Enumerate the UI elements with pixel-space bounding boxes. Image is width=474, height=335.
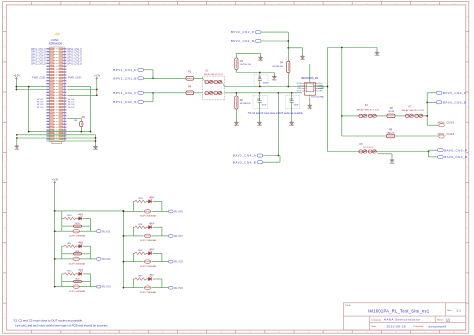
junction [54, 258, 56, 260]
svg-text:RLY07: RLY07 [174, 234, 183, 238]
wire [146, 252, 149, 254]
wire [62, 218, 65, 220]
junction [95, 137, 97, 139]
wire [153, 226, 162, 228]
svg-text:LED4: LED4 [149, 197, 155, 199]
wire [123, 287, 133, 289]
wire [46, 140, 96, 142]
wire [83, 218, 91, 220]
wire [96, 81, 98, 96]
svg-text:Company:: Company: [371, 319, 381, 321]
junction [123, 261, 125, 263]
wire [277, 93, 279, 156]
svg-text:V2: V2 [305, 88, 307, 90]
wire [263, 161, 280, 163]
ground [15, 145, 20, 148]
wire [426, 93, 428, 125]
wire [55, 230, 62, 232]
wire [395, 135, 439, 137]
wire [236, 72, 274, 74]
svg-text:2022-09-26: 2022-09-26 [387, 324, 406, 328]
title block [343, 303, 465, 330]
junction [90, 131, 92, 133]
ground [300, 55, 305, 58]
svg-text:+3.3V: +3.3V [94, 75, 101, 78]
connector CON4 [46, 33, 66, 144]
svg-text:TITLE:: TITLE: [345, 305, 352, 307]
wire [133, 226, 135, 228]
global label BPV0_CN0_B [436, 101, 442, 104]
wire [132, 201, 134, 211]
wire [80, 230, 91, 232]
svg-text:16: 16 [453, 332, 455, 334]
wire [376, 48, 378, 52]
svg-text:1/1: 1/1 [446, 318, 450, 322]
wire [259, 93, 261, 101]
wire [62, 225, 74, 227]
wire [123, 235, 133, 237]
svg-text:RLY02: RLY02 [102, 257, 111, 261]
junction [428, 151, 430, 153]
wire [16, 138, 18, 145]
svg-text:LED5: LED5 [149, 223, 155, 225]
wire [309, 64, 311, 83]
wire [91, 258, 97, 260]
svg-text:15: 15 [424, 3, 426, 5]
wire [318, 85, 323, 87]
svg-text:7: 7 [192, 3, 193, 5]
junction [96, 89, 98, 91]
global label BPV1_CN2_B [138, 100, 144, 103]
global label BAV2_CN4_B [257, 161, 263, 164]
junction [123, 210, 125, 212]
wire [235, 70, 237, 73]
op-amp U1 IM1601PA_RL [296, 76, 324, 98]
global label RLY07 [169, 235, 174, 238]
wire [144, 77, 187, 79]
ground [234, 121, 239, 124]
wire [377, 151, 429, 153]
wire [123, 261, 133, 263]
svg-text:2.1: 2.1 [457, 309, 462, 313]
wire [80, 127, 82, 132]
global label BPV1_CN1_P [138, 68, 144, 71]
svg-text:P2: P2 [313, 88, 315, 90]
wire [16, 89, 46, 91]
svg-text:BAV0_CN0_P: BAV0_CN0_P [444, 148, 467, 152]
svg-text:12: 12 [337, 3, 339, 5]
wire [328, 47, 378, 49]
wire [263, 155, 280, 157]
wire [83, 245, 91, 247]
wire [75, 218, 78, 220]
wire [55, 210, 124, 212]
svg-text:4K75R-1W: 4K75R-1W [272, 66, 284, 68]
svg-text:BPV1_CN2_B: BPV1_CN2_B [113, 100, 137, 104]
svg-text:100nF: 100nF [263, 83, 270, 85]
global label BAV0_CN0_P [438, 149, 444, 152]
wire [122, 211, 124, 288]
svg-text:F: F [467, 167, 468, 169]
wire [133, 235, 143, 237]
wire [146, 278, 149, 280]
wire [279, 156, 281, 163]
capacitor C1 [254, 74, 269, 86]
junction [259, 86, 261, 88]
wire [133, 261, 143, 263]
svg-text:SC/PC NE3UAB: SC/PC NE3UAB [140, 239, 157, 242]
wire [153, 278, 162, 280]
wire [62, 230, 73, 232]
wire [287, 32, 289, 61]
svg-text:ILT-7G-5V: ILT-7G-5V [363, 147, 373, 149]
svg-text:RLY04: RLY04 [37, 107, 44, 109]
wire [67, 118, 81, 120]
svg-text:BPV2_CN1_P: BPV2_CN1_P [67, 49, 82, 51]
svg-text:GND: GND [289, 125, 294, 127]
svg-text:BPV2_CN3_P: BPV2_CN3_P [31, 60, 46, 62]
svg-text:Date:: Date: [371, 325, 377, 328]
opto U8 [144, 260, 151, 264]
svg-text:LED6: LED6 [149, 249, 155, 251]
svg-text:2: 2 [46, 3, 47, 5]
wire [62, 286, 73, 288]
wire [16, 86, 46, 88]
wire [91, 230, 97, 232]
svg-text:*C1 C2 and C3 must close to DU: *C1 C2 and C3 must close to DUT socket a… [248, 112, 304, 115]
svg-text:HANA Semiconductor: HANA Semiconductor [384, 318, 421, 322]
junction [16, 134, 18, 136]
svg-text:Thermal PAD: Thermal PAD [311, 96, 324, 99]
wire [395, 115, 405, 117]
wire [428, 150, 430, 157]
wire [378, 153, 393, 155]
wire [291, 93, 293, 101]
svg-text:P3: P3 [313, 91, 315, 93]
svg-text:GND: GND [272, 80, 277, 82]
wire [391, 154, 393, 159]
svg-text:16: 16 [453, 3, 455, 5]
ground [390, 159, 395, 162]
wire [91, 286, 97, 288]
wire [153, 252, 162, 254]
opto U3 [73, 257, 80, 261]
wire [261, 40, 288, 42]
wire [61, 274, 63, 287]
wire [15, 81, 17, 90]
svg-text:11: 11 [308, 3, 310, 5]
svg-text:3: 3 [75, 3, 76, 5]
svg-text:BAV2_CN4_A: BAV2_CN4_A [233, 154, 256, 158]
wire [55, 258, 62, 260]
wire [146, 200, 149, 202]
wire [162, 261, 169, 263]
wire [67, 94, 97, 96]
resistor R8 [387, 129, 395, 138]
wire [152, 70, 154, 79]
svg-text:2: 2 [46, 332, 47, 334]
wire [327, 48, 329, 152]
svg-text:4K75R-1W: 4K75R-1W [240, 103, 252, 105]
ground [258, 56, 263, 59]
wire [259, 81, 261, 87]
wire [62, 258, 73, 260]
junction [291, 92, 293, 94]
wire H1 [225, 86, 328, 88]
wire [273, 73, 275, 76]
svg-text:0R: 0R [74, 120, 77, 122]
junction [287, 86, 289, 88]
wire [132, 253, 134, 261]
svg-text:BPV1_CN2_B: BPV1_CN2_B [31, 58, 46, 60]
opto U4 [73, 285, 80, 289]
wire [153, 200, 162, 202]
svg-text:SC/PC NE3UAB: SC/PC NE3UAB [140, 265, 157, 268]
relay K7 [402, 106, 425, 118]
wire [260, 53, 262, 56]
global label RLY02 [96, 258, 101, 261]
ground [93, 145, 98, 148]
svg-text:BPV0_CN3_B: BPV0_CN3_B [67, 63, 82, 65]
wire H2 [225, 92, 303, 94]
svg-text:BPV1_CN1_B: BPV1_CN1_B [31, 52, 46, 54]
junction [28, 86, 30, 88]
wire [17, 137, 96, 139]
wire [236, 52, 260, 54]
svg-text:PWR_GND: PWR_GND [68, 75, 81, 79]
svg-text:F: F [4, 167, 5, 169]
wire [287, 73, 289, 87]
ground [272, 76, 277, 79]
wire [146, 226, 149, 228]
wire [429, 149, 438, 151]
svg-text:P1: P1 [313, 86, 315, 88]
svg-text:B: B [4, 47, 5, 49]
wire [261, 31, 288, 33]
junction [54, 210, 56, 212]
svg-text:BAV2_CN4_B: BAV2_CN4_B [233, 160, 256, 164]
wire [162, 235, 169, 237]
svg-text:BPV0_CN3_P: BPV0_CN3_P [67, 60, 82, 62]
svg-text:13: 13 [366, 332, 368, 334]
svg-text:5: 5 [133, 332, 134, 334]
svg-text:BPV1_CN1_B: BPV1_CN1_B [113, 76, 137, 80]
wire [75, 245, 78, 247]
global label BPV1_CN2_P [138, 91, 144, 94]
svg-text:*C1 C2 and C3 must close to DU: *C1 C2 and C3 must close to DUT socket a… [13, 318, 83, 322]
wire [162, 287, 169, 289]
junction [259, 72, 261, 74]
svg-text:4: 4 [104, 332, 105, 334]
wire [328, 151, 359, 153]
svg-text:V3: V3 [305, 91, 307, 93]
wire [259, 73, 261, 79]
wire [342, 135, 387, 137]
svg-text:10uF: 10uF [294, 105, 299, 107]
junction [259, 92, 261, 94]
svg-text:RLY06: RLY06 [174, 210, 183, 214]
svg-text:SC/PC NE3UAB: SC/PC NE3UAB [69, 235, 86, 238]
svg-text:Sheet:: Sheet: [437, 318, 444, 321]
capacitor C2 [253, 96, 268, 109]
global label RLY06 [169, 210, 174, 213]
wire [80, 258, 91, 260]
wire [152, 93, 154, 102]
wire [67, 86, 90, 88]
svg-text:V1: V1 [305, 86, 307, 88]
wire [133, 252, 135, 254]
svg-text:SC/PC NE3UAB: SC/PC NE3UAB [140, 291, 157, 294]
svg-text:10uF: 10uF [262, 105, 267, 107]
svg-text:BAV0_CN0_B: BAV0_CN0_B [444, 155, 467, 159]
svg-text:GND: GND [318, 91, 323, 93]
wire [235, 93, 237, 96]
wire [291, 102, 293, 121]
svg-text:RLY09: RLY09 [174, 286, 183, 290]
svg-text:GND: GND [258, 60, 263, 62]
svg-text:4K75R-1W: 4K75R-1W [240, 64, 252, 66]
wire [28, 87, 30, 132]
junction [80, 131, 82, 133]
opto U6 [144, 210, 151, 214]
opto U2 [73, 229, 80, 233]
svg-text:Rev:: Rev: [447, 310, 452, 312]
wire [29, 131, 91, 133]
junction [123, 287, 125, 289]
wire [90, 219, 92, 232]
svg-text:Line pin2 and pin3 must shield: Line pin2 and pin3 must shield inner lay… [15, 323, 108, 327]
relay K4 [357, 104, 380, 117]
svg-text:13: 13 [366, 3, 368, 5]
svg-text:GND: GND [93, 149, 98, 151]
svg-text:LED7: LED7 [149, 275, 155, 277]
wire [144, 69, 154, 71]
wire [161, 253, 163, 261]
svg-text:8: 8 [221, 332, 222, 334]
wire [377, 115, 387, 117]
power +3.3V [15, 77, 17, 80]
svg-text:14: 14 [395, 3, 397, 5]
wire [82, 253, 91, 255]
svg-text:11: 11 [308, 332, 310, 334]
svg-text:GND: GND [375, 55, 380, 57]
junction [123, 235, 125, 237]
svg-text:+3.3V: +3.3V [52, 179, 59, 182]
ground [375, 51, 380, 54]
svg-text:CON4: CON4 [51, 38, 59, 42]
capacitor C3 [285, 96, 300, 109]
svg-text:RLY09: RLY09 [68, 107, 75, 109]
wire [288, 47, 302, 49]
wire [133, 200, 135, 202]
wire [132, 227, 134, 236]
junction [341, 47, 343, 49]
junction [426, 101, 428, 103]
svg-text:GND: GND [300, 59, 305, 61]
wire [427, 101, 436, 103]
svg-text:RLY01: RLY01 [102, 229, 111, 233]
wire [61, 211, 63, 231]
global label BAV0_CN0_B [438, 155, 444, 158]
ground [308, 104, 313, 107]
svg-text:BPV2_CN2_P: BPV2_CN2_P [231, 30, 255, 34]
junction [16, 86, 18, 88]
global label BPV2_CN2_P [255, 31, 261, 34]
global label BAV2_CN4_A [257, 154, 263, 157]
svg-text:1: 1 [17, 332, 18, 334]
svg-text:SC/PC NE3UAB: SC/PC NE3UAB [69, 262, 86, 265]
wire [90, 87, 92, 132]
power +3.3V [54, 181, 56, 184]
wire [80, 119, 82, 122]
ground [289, 121, 294, 124]
wire [55, 286, 62, 288]
wire [54, 185, 56, 287]
junction [54, 286, 56, 288]
svg-text:GND: GND [257, 125, 262, 127]
global label BPV1_CN1_B [138, 77, 144, 80]
junction [54, 230, 56, 232]
svg-text:BPV2_CN2_B: BPV2_CN2_B [67, 58, 82, 60]
wire [133, 210, 143, 212]
svg-text:P0: P0 [313, 83, 315, 85]
wire [341, 48, 343, 137]
junction [152, 92, 154, 94]
junction [236, 92, 238, 94]
global label BPV2_CN2_B [255, 40, 261, 43]
wire [429, 156, 438, 158]
junction [327, 86, 329, 88]
wire [342, 115, 359, 117]
svg-text:SC/PC NE3UAB: SC/PC NE3UAB [69, 290, 86, 293]
wire [62, 253, 74, 255]
junction [152, 77, 154, 79]
wire [123, 210, 133, 212]
global label BPV0_CN0_P [436, 91, 442, 94]
svg-text:BPV1_CN1_P: BPV1_CN1_P [113, 68, 137, 72]
wire [144, 101, 154, 103]
svg-text:BPV1_CN1_P: BPV1_CN1_P [31, 49, 46, 51]
svg-text:12: 12 [337, 332, 339, 334]
wire [83, 273, 91, 275]
relay K5 [359, 143, 377, 153]
svg-text:PWR_GND: PWR_GND [32, 75, 45, 79]
wire [132, 279, 134, 288]
svg-text:9: 9 [250, 3, 251, 5]
wire [161, 279, 163, 288]
wire [61, 246, 63, 259]
global label RLY09 [169, 286, 174, 289]
wire [322, 86, 324, 89]
wire [152, 261, 162, 263]
svg-text:BPV1_CN2_P: BPV1_CN2_P [113, 91, 137, 95]
wire [80, 286, 91, 288]
svg-text:7: 7 [192, 332, 193, 334]
svg-text:VDDA: VDDA [296, 82, 302, 85]
resistor R6 [387, 107, 395, 118]
wire [161, 227, 163, 236]
wire [162, 210, 169, 212]
relay K1 [203, 70, 225, 100]
svg-text:B: B [467, 47, 468, 49]
wire [235, 109, 237, 121]
wire [144, 92, 187, 94]
wire [194, 92, 203, 94]
wire [302, 48, 304, 55]
svg-text:8: 8 [221, 3, 222, 5]
svg-text:BPV1_CN2_P: BPV1_CN2_P [31, 55, 46, 57]
wire [235, 53, 237, 58]
